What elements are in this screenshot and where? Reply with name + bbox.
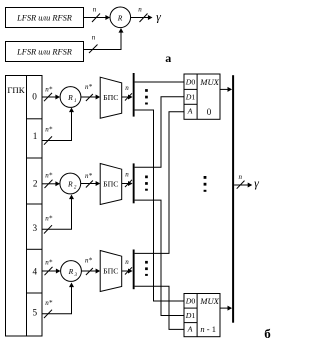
svg-text:БПС: БПС — [103, 93, 118, 102]
dots between MUXes — [204, 176, 207, 192]
wire R3 to BPS3 — [81, 257, 100, 276]
wire R2 to BPS2 — [81, 172, 101, 188]
svg-text:n*: n* — [45, 214, 53, 222]
svg-text:R: R — [117, 13, 123, 22]
svg-text:1: 1 — [33, 131, 38, 141]
svg-text:2: 2 — [74, 186, 77, 191]
adder R2 — [60, 173, 81, 194]
svg-text:БПС: БПС — [103, 180, 118, 189]
wire cell4 to R3 — [42, 259, 61, 276]
svg-text:D0: D0 — [185, 77, 196, 86]
svg-text:а: а — [165, 51, 171, 65]
svg-text:MUX: MUX — [199, 77, 219, 87]
svg-text:n: n — [138, 5, 142, 13]
dots bar1 — [145, 89, 148, 104]
svg-text:R: R — [67, 93, 73, 102]
wire bar3 to MUX2 A — [135, 286, 184, 329]
svg-text:n*: n* — [45, 126, 53, 134]
wire bar1 to MUX1 D0 — [135, 81, 184, 83]
svg-text:n*: n* — [45, 85, 53, 93]
wire R to gamma output — [131, 5, 153, 22]
svg-text:0: 0 — [32, 92, 37, 102]
svg-text:n: n — [92, 34, 96, 42]
svg-text:n: n — [125, 84, 129, 92]
wire BPS1 to bar1 — [122, 84, 133, 101]
wire cell2 to R2 — [42, 172, 60, 189]
svg-text:1: 1 — [74, 99, 77, 104]
bus bar 3 — [133, 250, 135, 290]
svg-text:A: A — [187, 325, 193, 334]
dots bar2 — [145, 176, 148, 191]
block BPS3 — [100, 251, 122, 292]
wire cell0 to R1 — [42, 85, 60, 101]
wire BPS3 to bar3 — [122, 258, 133, 275]
svg-text:БПС: БПС — [103, 267, 118, 276]
block BPS1 — [100, 77, 122, 118]
svg-text:0: 0 — [207, 107, 212, 117]
block LFSR/RFSR 2 — [6, 42, 84, 62]
svg-text:n - 1: n - 1 — [200, 324, 216, 334]
wire bar3 to MUX1 A — [135, 112, 184, 254]
svg-text:2: 2 — [33, 179, 38, 189]
output bus — [232, 75, 234, 323]
wire cell1 to R1 bottom — [42, 108, 74, 145]
wire LFSR2 to R bottom — [84, 28, 124, 53]
svg-text:3: 3 — [33, 223, 38, 233]
bus bar 2 — [133, 163, 135, 203]
svg-text:D1: D1 — [185, 311, 196, 320]
svg-text:3: 3 — [75, 273, 78, 278]
wire LFSR1 to R — [84, 5, 110, 22]
svg-text:n: n — [125, 258, 129, 266]
wire MUX2 output — [220, 306, 232, 311]
adder R1 — [60, 87, 81, 108]
wire MUX1 output — [220, 87, 232, 92]
block GPK box — [6, 76, 43, 337]
svg-text:n*: n* — [85, 257, 93, 265]
svg-text:LFSR или RFSR: LFSR или RFSR — [16, 48, 72, 57]
svg-text:R: R — [68, 267, 74, 276]
svg-text:γ: γ — [254, 176, 259, 190]
svg-text:MUX: MUX — [199, 296, 219, 306]
wire bar1 to MUX2 D0 — [135, 110, 184, 301]
GPK cell labels 0-5 — [32, 92, 38, 318]
wire BPS2 to bar2 — [122, 171, 133, 188]
block MUX1 — [184, 74, 220, 119]
wire bus to gamma output — [234, 173, 252, 189]
svg-text:R: R — [67, 180, 73, 189]
block MUX2 — [184, 294, 220, 337]
svg-text:n*: n* — [45, 299, 53, 307]
svg-text:γ: γ — [156, 9, 161, 23]
dots bar3 — [145, 261, 148, 276]
svg-text:n: n — [93, 5, 97, 13]
adder R — [110, 7, 131, 28]
wire cell5 to R3 bottom — [42, 283, 74, 319]
GPK cell dividers — [27, 119, 43, 293]
svg-text:n*: n* — [45, 172, 53, 180]
wire cell3 to R2 bottom — [42, 195, 74, 234]
svg-text:n: n — [239, 173, 243, 181]
svg-text:LFSR или RFSR: LFSR или RFSR — [16, 14, 72, 23]
svg-text:б: б — [264, 326, 271, 341]
svg-text:ГПК: ГПК — [7, 85, 24, 95]
block LFSR/RFSR 1 — [6, 8, 84, 28]
svg-text:n*: n* — [85, 172, 93, 180]
svg-text:5: 5 — [33, 308, 38, 318]
wire R1 to BPS1 — [81, 83, 100, 101]
svg-text:n: n — [125, 171, 129, 179]
svg-text:n*: n* — [85, 83, 93, 91]
wire bar2 to MUX1 D1 — [135, 97, 184, 168]
svg-text:n*: n* — [45, 259, 53, 267]
block BPS2 — [100, 164, 122, 205]
svg-text:D1: D1 — [185, 92, 196, 101]
svg-text:D0: D0 — [185, 297, 196, 306]
wire bar2 to MUX2 D1 — [135, 200, 184, 315]
adder R3 — [61, 261, 82, 282]
svg-text:4: 4 — [33, 267, 38, 277]
svg-text:A: A — [187, 107, 193, 116]
bus bar 1 — [133, 73, 135, 117]
